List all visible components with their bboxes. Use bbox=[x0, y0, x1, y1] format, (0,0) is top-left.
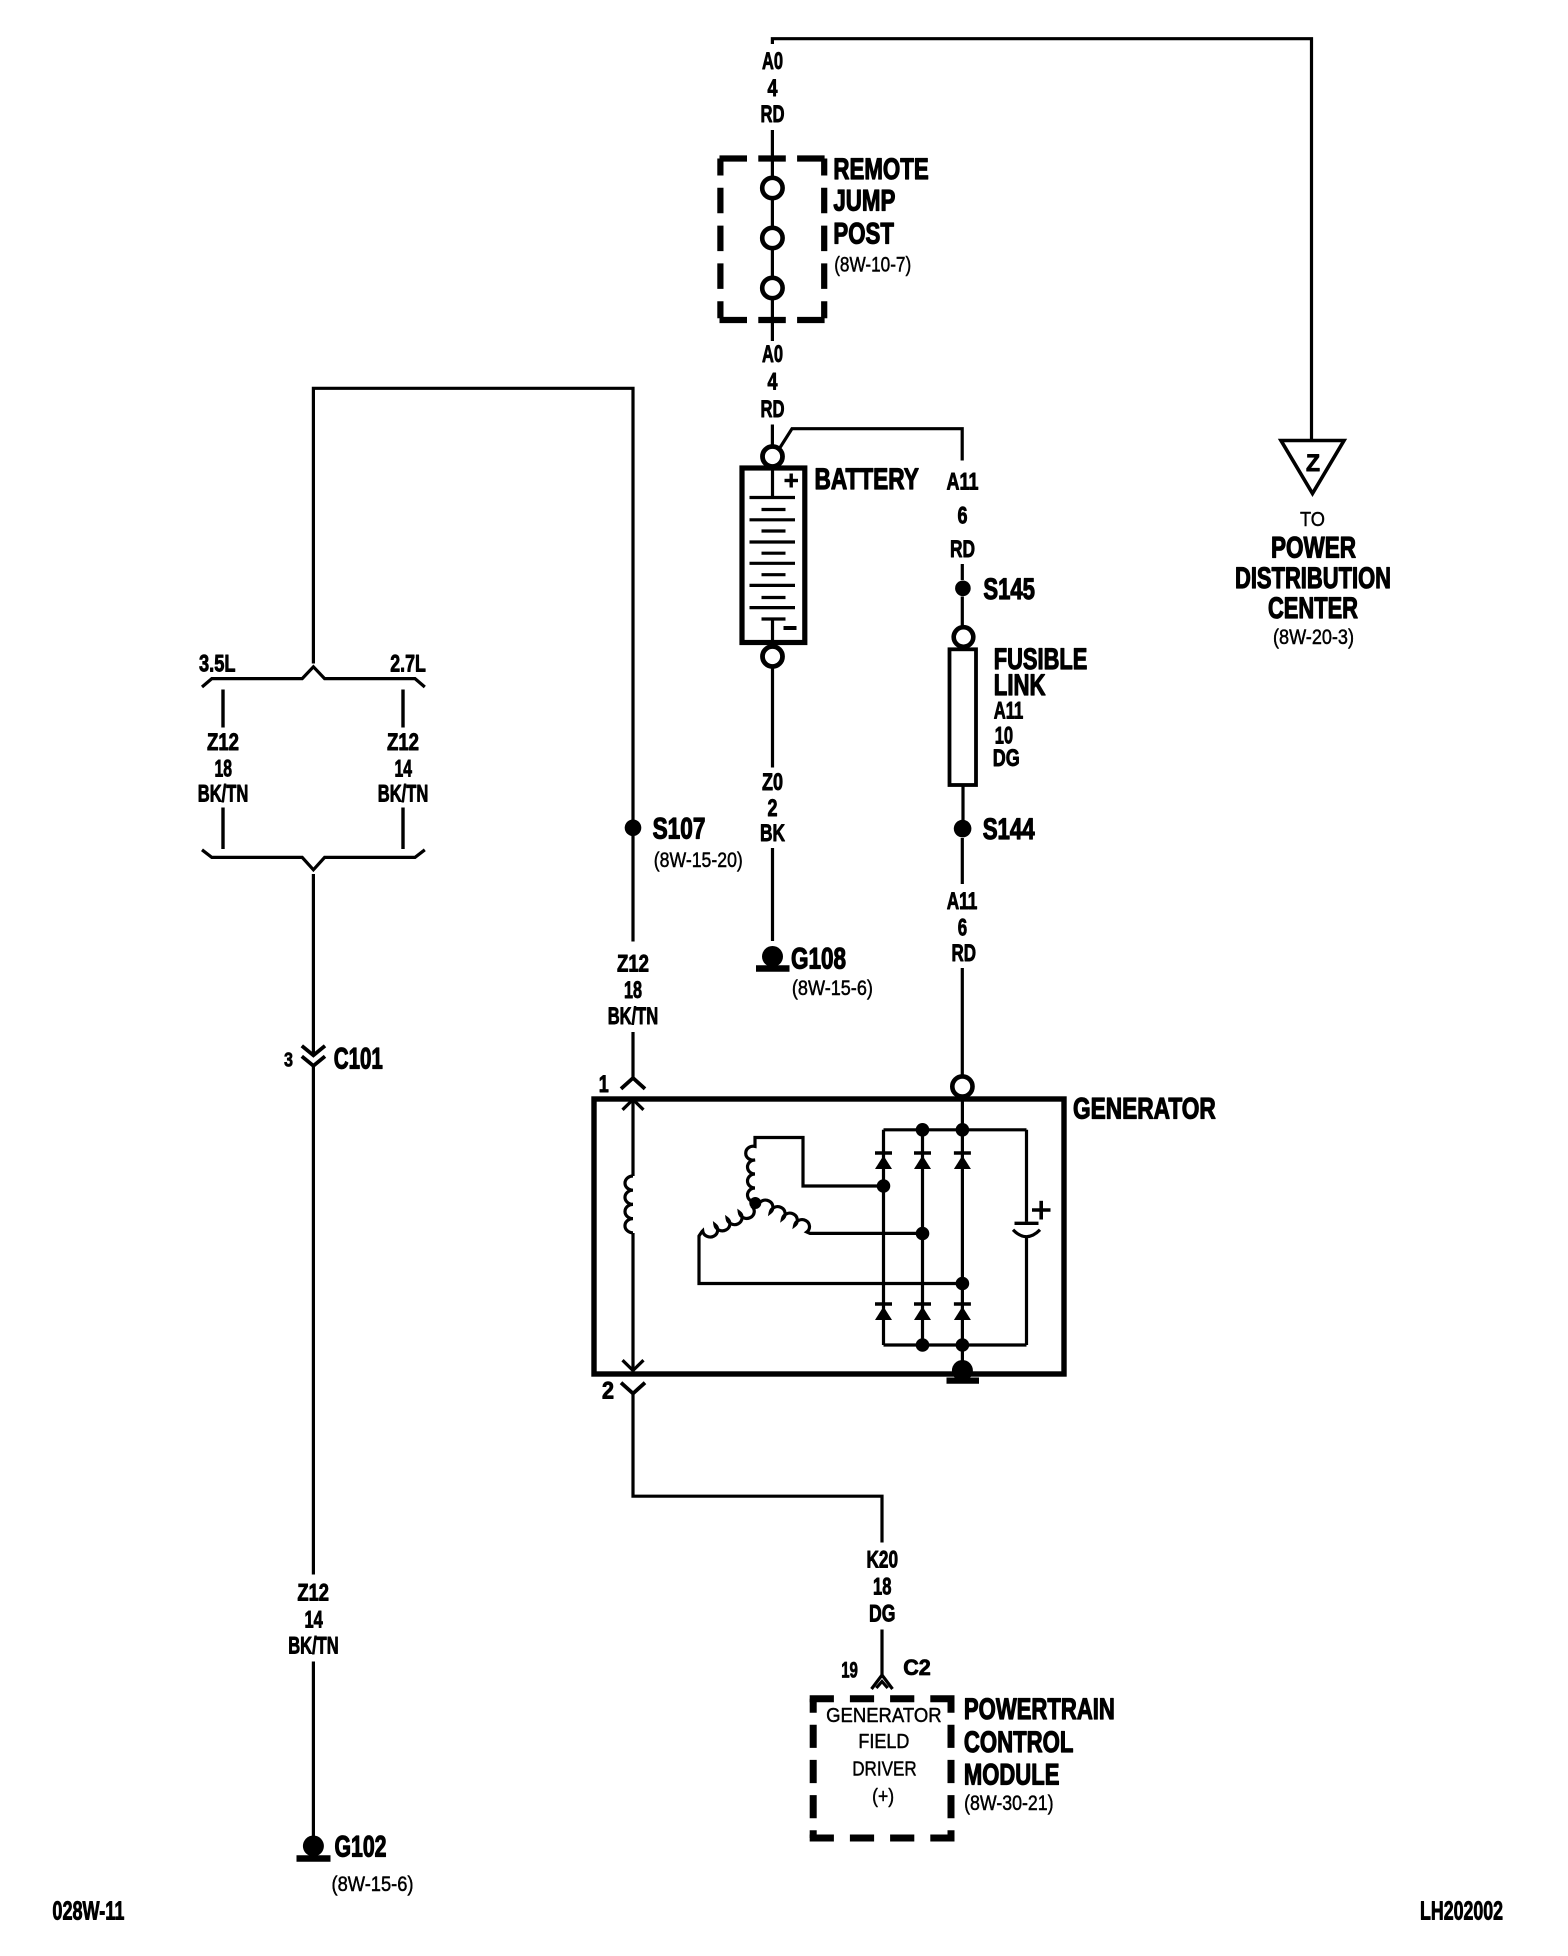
wire label: Z0 2 BK bbox=[760, 769, 785, 847]
ground G108 bbox=[756, 943, 873, 1001]
svg-text:(8W-10-7): (8W-10-7) bbox=[834, 253, 911, 277]
wire: S144 down bbox=[961, 838, 964, 884]
jump post terminal circle 1 bbox=[762, 178, 782, 198]
svg-text:(8W-15-6): (8W-15-6) bbox=[332, 1872, 414, 1896]
generator pin 2 connector bbox=[602, 1378, 645, 1405]
svg-text:DRIVER: DRIVER bbox=[852, 1759, 917, 1781]
svg-text:BK/TN: BK/TN bbox=[288, 1633, 339, 1660]
svg-text:BK/TN: BK/TN bbox=[378, 781, 429, 808]
svg-text:1: 1 bbox=[599, 1071, 609, 1098]
connector C2 pin 19 bbox=[841, 1655, 931, 1689]
svg-text:DG: DG bbox=[869, 1601, 895, 1628]
svg-text:CENTER: CENTER bbox=[1268, 592, 1358, 625]
svg-text:2.7L: 2.7L bbox=[390, 651, 426, 678]
svg-text:Z0: Z0 bbox=[762, 769, 783, 796]
svg-text:19: 19 bbox=[841, 1657, 858, 1682]
svg-text:6: 6 bbox=[958, 503, 968, 530]
svg-text:Z: Z bbox=[1306, 450, 1320, 477]
battery positive terminal circle bbox=[763, 447, 783, 467]
wire: engine harness loop (3.5L/2.7L) to S107 branch bbox=[313, 388, 633, 941]
wire label: Z12 14 BK/TN (2.7L) bbox=[378, 729, 429, 808]
wire: K20 to PCM pin 19 bbox=[880, 1630, 883, 1679]
svg-text:MODULE: MODULE bbox=[964, 1759, 1060, 1792]
splice S144 bbox=[954, 813, 1035, 846]
svg-text:A11: A11 bbox=[947, 888, 978, 915]
label: GENERATOR FIELD DRIVER (+) bbox=[826, 1705, 942, 1808]
rectifier diode D6 (lower right) bbox=[954, 1304, 971, 1320]
rectifier diode D3 (upper right) bbox=[954, 1153, 971, 1169]
battery B1 bbox=[742, 468, 805, 643]
generator internal ground bbox=[947, 1360, 980, 1381]
wire: 2.7L branch upper stub bbox=[401, 690, 404, 728]
svg-text:6: 6 bbox=[958, 915, 967, 942]
splice S107 bbox=[625, 813, 743, 872]
svg-text:DISTRIBUTION: DISTRIBUTION bbox=[1235, 562, 1391, 595]
svg-text:A11: A11 bbox=[994, 698, 1024, 725]
svg-text:Z12: Z12 bbox=[297, 1580, 329, 1607]
svg-text:4: 4 bbox=[768, 369, 778, 396]
svg-text:A0: A0 bbox=[762, 48, 783, 75]
brace: engine options merge (bottom) bbox=[202, 850, 425, 870]
wire: S145 to fusible link bbox=[961, 597, 964, 628]
svg-text:DG: DG bbox=[993, 745, 1020, 772]
generator stator windings bbox=[699, 1138, 956, 1284]
jump post terminal circle 3 bbox=[762, 278, 782, 298]
svg-text:4: 4 bbox=[768, 75, 778, 102]
wire label: K20 18 DG bbox=[867, 1547, 899, 1628]
svg-text:FIELD: FIELD bbox=[858, 1731, 909, 1753]
svg-text:3: 3 bbox=[284, 1049, 293, 1071]
svg-text:CONTROL: CONTROL bbox=[964, 1726, 1074, 1759]
svg-text:14: 14 bbox=[395, 756, 413, 783]
wire: 3.5L branch lower stub bbox=[221, 808, 224, 850]
wire: 3.5L branch upper stub bbox=[221, 690, 224, 728]
junction dots on rectifier bbox=[877, 1123, 970, 1352]
svg-text:2: 2 bbox=[768, 795, 778, 822]
wire: A11 to splice S145 bbox=[961, 564, 964, 580]
wire: A0 to battery positive bbox=[771, 425, 774, 447]
svg-text:POST: POST bbox=[833, 218, 894, 251]
svg-text:RD: RD bbox=[950, 536, 975, 563]
label: REMOTE JUMP POST (8W-10-7) bbox=[833, 153, 928, 277]
svg-text:RD: RD bbox=[761, 396, 785, 423]
svg-text:18: 18 bbox=[215, 756, 233, 783]
wire: Z0 to G108 bbox=[771, 848, 774, 941]
svg-text:BK/TN: BK/TN bbox=[608, 1003, 659, 1030]
wire: battery positive to A11 branch bbox=[779, 429, 962, 461]
generator capacitor bbox=[1013, 1130, 1051, 1345]
powertrain control module dashed box bbox=[810, 1699, 955, 1838]
svg-text:BK/TN: BK/TN bbox=[198, 781, 249, 808]
svg-text:TO: TO bbox=[1300, 509, 1325, 531]
svg-text:GENERATOR: GENERATOR bbox=[826, 1705, 942, 1727]
label: POWERTRAIN CONTROL MODULE (8W-30-21) bbox=[964, 1693, 1115, 1815]
wire: battery negative to ground bbox=[771, 667, 774, 768]
wire: BK/TN to ground G102 bbox=[312, 1662, 315, 1838]
rectifier diode D1 (upper left) bbox=[875, 1153, 892, 1169]
rectifier diode D5 (lower middle) bbox=[914, 1304, 931, 1320]
wire: A0 through remote jump post bbox=[771, 130, 774, 341]
fusible link terminal circle bbox=[954, 627, 974, 647]
svg-text:RD: RD bbox=[761, 101, 785, 128]
connector C101 bbox=[284, 1042, 383, 1075]
svg-text:(8W-15-6): (8W-15-6) bbox=[792, 976, 873, 1000]
svg-text:(8W-20-3): (8W-20-3) bbox=[1273, 625, 1354, 649]
wire: C101 to G102 bbox=[312, 1067, 315, 1575]
svg-text:REMOTE: REMOTE bbox=[833, 153, 928, 186]
svg-text:POWER: POWER bbox=[1271, 532, 1356, 565]
rectifier diode D4 (lower left) bbox=[875, 1304, 892, 1320]
svg-text:(8W-30-21): (8W-30-21) bbox=[964, 1791, 1054, 1815]
wire label: Z12 18 BK/TN (S107 branch) bbox=[608, 951, 659, 1031]
svg-text:3.5L: 3.5L bbox=[199, 651, 236, 678]
svg-text:K20: K20 bbox=[867, 1547, 899, 1574]
generator pin 1 connector bbox=[599, 1071, 645, 1098]
generator box bbox=[594, 1099, 1064, 1374]
wire: Z12 to connector C101 bbox=[312, 874, 315, 1054]
svg-text:18: 18 bbox=[624, 977, 642, 1004]
generator output terminal circle bbox=[952, 1076, 972, 1096]
wire: A0 feed loop to power distribution center bbox=[772, 39, 1311, 446]
generator rectifier bridge bbox=[884, 1097, 1027, 1371]
label: FUSIBLE LINK A11 10 DG bbox=[993, 643, 1088, 772]
svg-text:BATTERY: BATTERY bbox=[815, 463, 920, 496]
svg-text:S145: S145 bbox=[983, 573, 1035, 606]
svg-text:14: 14 bbox=[305, 1607, 324, 1634]
svg-text:(8W-15-20): (8W-15-20) bbox=[654, 848, 743, 872]
wire: generator pin 2 to K20 bbox=[633, 1394, 882, 1543]
wire: A11 to generator output terminal bbox=[961, 968, 964, 1077]
fusible link body bbox=[950, 649, 977, 785]
svg-text:RD: RD bbox=[952, 940, 977, 967]
svg-text:A11: A11 bbox=[947, 469, 979, 496]
svg-text:028W-11: 028W-11 bbox=[52, 1896, 124, 1926]
svg-text:18: 18 bbox=[873, 1574, 891, 1601]
svg-text:2: 2 bbox=[602, 1378, 614, 1405]
svg-text:JUMP: JUMP bbox=[833, 185, 895, 218]
battery negative terminal circle bbox=[763, 647, 783, 667]
wire: fusible link to splice S144 bbox=[961, 786, 964, 820]
wire label: Z12 14 BK/TN (lower) bbox=[288, 1580, 339, 1660]
jump post terminal circle 2 bbox=[762, 228, 782, 248]
svg-text:LH202002: LH202002 bbox=[1420, 1896, 1503, 1926]
splice S145 bbox=[955, 573, 1035, 606]
rectifier diode D2 (upper middle) bbox=[914, 1153, 931, 1169]
wire label: A11 6 RD (upper) bbox=[947, 469, 979, 564]
ground G102 bbox=[297, 1831, 414, 1897]
svg-text:Z12: Z12 bbox=[617, 951, 649, 978]
wire: Z12 to generator pin 1 bbox=[631, 1032, 634, 1078]
svg-text:S107: S107 bbox=[653, 813, 706, 846]
generator rotor field winding bbox=[623, 1100, 644, 1373]
svg-text:Z12: Z12 bbox=[387, 729, 419, 756]
wire: 2.7L branch lower stub bbox=[401, 808, 404, 850]
brace: engine options 3.5L / 2.7L (top) bbox=[202, 667, 425, 687]
svg-text:Z12: Z12 bbox=[207, 729, 239, 756]
svg-text:C2: C2 bbox=[903, 1655, 931, 1680]
wire label: A11 6 RD (lower) bbox=[947, 888, 978, 967]
label: TO POWER DISTRIBUTION CENTER (8W-20-3) bbox=[1235, 509, 1391, 649]
svg-text:(+): (+) bbox=[872, 1786, 894, 1808]
svg-text:G108: G108 bbox=[791, 943, 846, 976]
svg-text:GENERATOR: GENERATOR bbox=[1073, 1093, 1216, 1126]
svg-text:BK: BK bbox=[760, 820, 785, 847]
connector symbol Z: to power distribution center bbox=[1281, 441, 1344, 494]
svg-text:S144: S144 bbox=[983, 813, 1035, 846]
svg-text:A0: A0 bbox=[762, 341, 783, 368]
svg-text:C101: C101 bbox=[334, 1042, 383, 1075]
wire label: A0 4 RD (below remote jump post) bbox=[761, 341, 785, 423]
remote jump post dashed box bbox=[720, 159, 825, 321]
wire label: Z12 18 BK/TN (3.5L) bbox=[198, 729, 249, 808]
wire label: A0 4 RD (above remote jump post) bbox=[761, 48, 785, 128]
svg-text:POWERTRAIN: POWERTRAIN bbox=[964, 1693, 1115, 1726]
svg-text:G102: G102 bbox=[335, 1831, 387, 1864]
